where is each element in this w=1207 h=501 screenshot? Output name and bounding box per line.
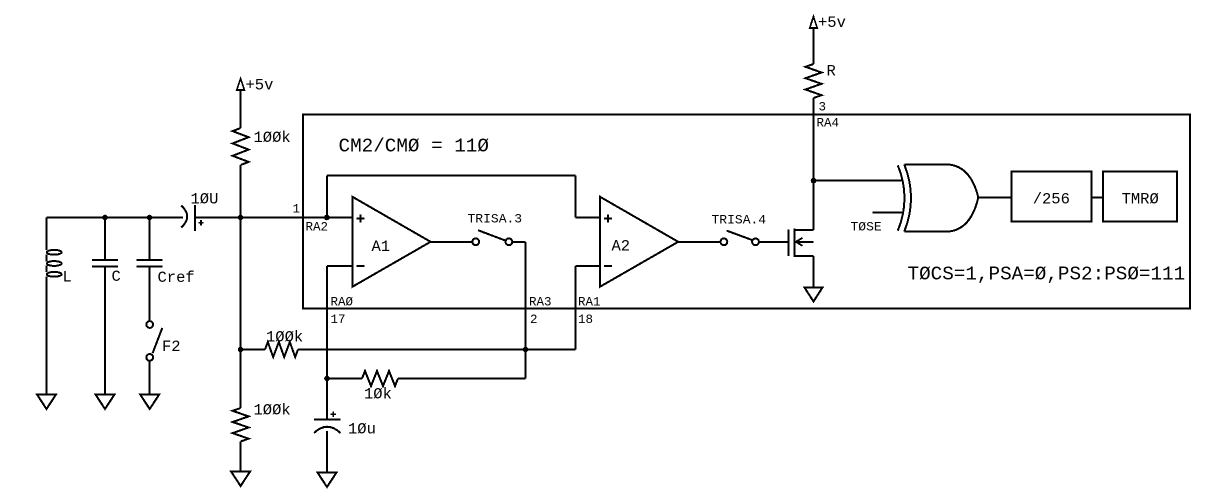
node junction A1+ tap <box>324 215 330 221</box>
svg-text:+5v: +5v <box>818 14 846 32</box>
wire +5v to R <box>240 90 242 128</box>
svg-text:3: 3 <box>819 101 827 115</box>
resistor 100k (mid) <box>241 349 265 351</box>
switch F2 <box>146 321 153 328</box>
capacitor 10U <box>181 205 187 227</box>
svg-text:RA3: RA3 <box>529 296 552 310</box>
wire to lower R <box>240 350 242 409</box>
svg-text:L: L <box>63 269 72 287</box>
node junction RA2 net <box>238 215 244 221</box>
wire RA0 node <box>327 378 362 380</box>
wire A2 output <box>678 241 720 243</box>
wire RA0 column <box>326 266 328 378</box>
wire top rail to A2+ <box>327 175 576 177</box>
wire top-left net <box>47 217 184 219</box>
capacitor 10u <box>326 379 328 420</box>
svg-text:17: 17 <box>331 313 346 327</box>
svg-text:1ØØk: 1ØØk <box>254 402 291 420</box>
svg-text:C: C <box>112 268 121 286</box>
wire A1 output <box>431 241 473 243</box>
svg-text:A1: A1 <box>372 238 391 256</box>
svg-text:/256: /256 <box>1033 191 1070 209</box>
block /256 <box>1011 172 1091 222</box>
wire divider mid <box>240 218 242 350</box>
wire 10k to RA3 <box>398 378 526 380</box>
wire A1+ to top rail <box>326 176 328 218</box>
node junction RA4 <box>811 178 817 184</box>
power +5v (left) <box>237 79 245 91</box>
node junction C <box>102 215 108 221</box>
svg-text:+5v: +5v <box>246 77 274 95</box>
wire T0SE input <box>873 212 903 214</box>
wire A1- input <box>327 265 352 267</box>
wire XOR to /256 <box>978 197 1011 199</box>
capacitor Cref <box>149 218 151 260</box>
svg-text:TRISA.3: TRISA.3 <box>468 212 523 227</box>
svg-text:1ØØk: 1ØØk <box>266 329 303 347</box>
svg-text:RAØ: RAØ <box>331 296 354 310</box>
switch TRISA.3 <box>472 238 479 245</box>
ground (MOSFET source) <box>805 288 823 302</box>
ground (C) <box>96 395 115 410</box>
wire RA1 column <box>574 266 576 349</box>
svg-text:RA2: RA2 <box>306 221 329 235</box>
transistor Q1 (MOSFET) <box>788 230 790 257</box>
svg-text:2: 2 <box>530 313 538 327</box>
PIC device box <box>303 115 1190 309</box>
switch TRISA.4 <box>721 238 728 245</box>
capacitor C <box>104 218 106 260</box>
node junction divider <box>238 347 244 353</box>
resistor 100k (top) <box>233 128 249 165</box>
block TMR0 <box>1103 172 1177 222</box>
inductor L <box>46 218 48 251</box>
op-amp A1 <box>352 197 430 287</box>
node junction RA0 <box>324 376 330 382</box>
resistor 10k <box>362 371 398 386</box>
ground (10u) <box>318 473 337 488</box>
op-amp A2 <box>600 197 678 287</box>
ground (divider) <box>231 472 250 487</box>
svg-text:Cref: Cref <box>158 269 195 287</box>
svg-text:RA1: RA1 <box>578 296 601 310</box>
svg-text:18: 18 <box>578 313 593 327</box>
resistor 100k (bottom) <box>233 408 249 442</box>
power +5v (right) <box>810 17 818 29</box>
resistor R <box>806 64 822 98</box>
wire switch to RA3 column <box>512 241 525 243</box>
wire RA4 to XOR <box>814 180 903 182</box>
node junction Cref <box>147 215 153 221</box>
svg-text:1ØU: 1ØU <box>191 191 219 209</box>
svg-text:R: R <box>827 63 836 81</box>
wire RA2 input <box>195 217 352 219</box>
wire switch to gate <box>759 241 789 243</box>
wire R to node <box>240 165 242 218</box>
wire A2- input <box>575 265 600 267</box>
ground (F2) <box>140 395 159 410</box>
wire +5v to R <box>813 28 815 64</box>
svg-text:TRISA.4: TRISA.4 <box>712 213 767 228</box>
wire to ground <box>240 442 242 472</box>
svg-text:1Øu: 1Øu <box>348 421 376 439</box>
svg-text:1Øk: 1Øk <box>364 386 392 404</box>
svg-text:RA4: RA4 <box>817 117 840 131</box>
svg-text:TØSE: TØSE <box>851 220 882 235</box>
svg-text:CM2/CMØ = 11Ø: CM2/CMØ = 11Ø <box>339 135 490 157</box>
svg-text:TØCS=1,PSA=Ø,PS2:PSØ=111: TØCS=1,PSA=Ø,PS2:PSØ=111 <box>908 264 1186 286</box>
wire /256 to TMR0 <box>1091 197 1103 199</box>
wire R to RA4 <box>813 98 815 230</box>
svg-text:F2: F2 <box>162 338 181 356</box>
svg-text:A2: A2 <box>612 238 631 256</box>
svg-text:1ØØk: 1ØØk <box>254 129 291 147</box>
node junction RA3 net <box>523 347 529 353</box>
svg-text:1: 1 <box>293 203 301 217</box>
xor gate U1 <box>898 165 905 230</box>
ground (L) <box>37 395 56 410</box>
svg-text:TMRØ: TMRØ <box>1122 191 1159 209</box>
